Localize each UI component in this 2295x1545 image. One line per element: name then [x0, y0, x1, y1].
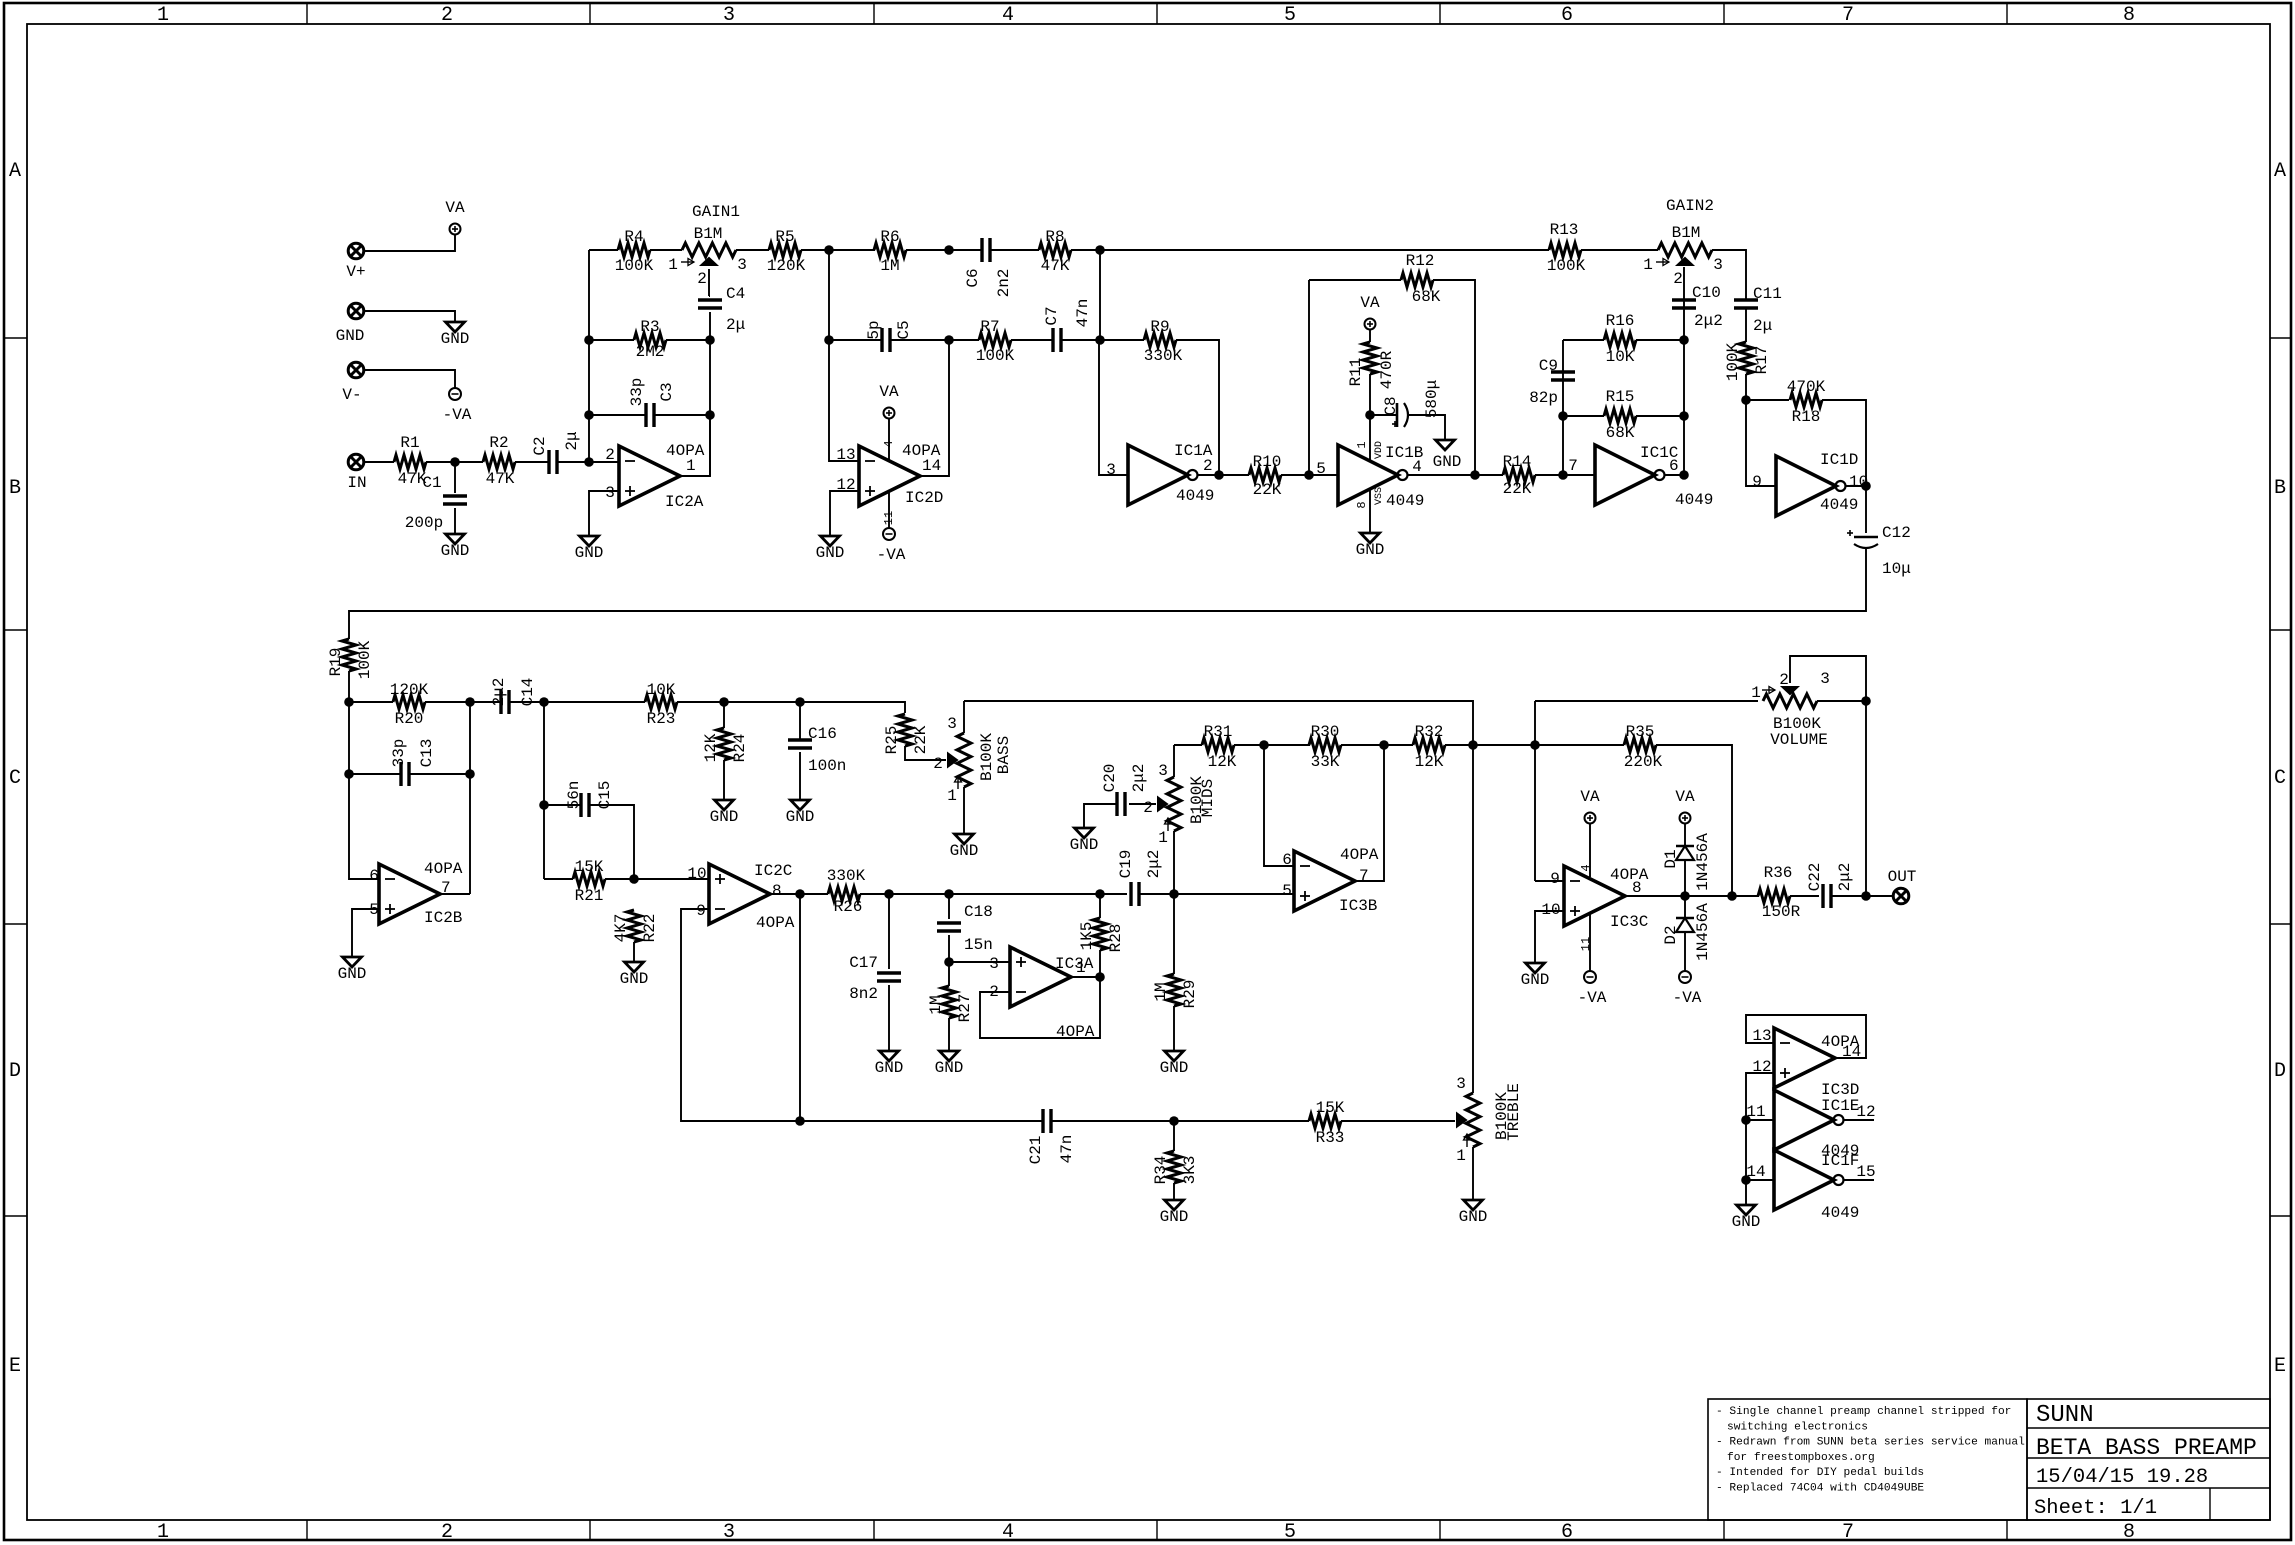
resistor R24: [717, 728, 731, 760]
node diode column: [1680, 891, 1690, 901]
resistor R16: [1604, 333, 1636, 347]
wire R12 to output column: [1433, 280, 1475, 475]
ground: [715, 800, 734, 810]
wire IN to R1: [364, 461, 394, 463]
svg-text:R8: R8: [1045, 228, 1064, 246]
svg-text:8: 8: [772, 882, 782, 900]
svg-text:3: 3: [1106, 461, 1116, 479]
resistor R34: [1167, 1151, 1181, 1183]
svg-text:GND: GND: [1356, 541, 1385, 559]
inverter IC1A: [1128, 445, 1188, 505]
diode D1 1N456A: [1676, 845, 1694, 847]
wire R25 to BASS wiper: [905, 746, 946, 760]
row dividers right band: [2270, 337, 2291, 339]
svg-text:A: A: [9, 160, 21, 183]
node R16 right: [1679, 335, 1689, 345]
svg-text:R27: R27: [956, 994, 974, 1023]
wire C20 to ground: [1084, 804, 1117, 828]
svg-text:VSS: VSS: [1374, 487, 1385, 505]
svg-text:68K: 68K: [1606, 424, 1635, 442]
wire node to C8: [1370, 414, 1397, 416]
svg-text:C5: C5: [895, 320, 913, 339]
svg-text:B1M: B1M: [694, 225, 723, 243]
svg-text:100K: 100K: [615, 257, 654, 275]
wire R35 to feedback column: [1656, 745, 1732, 894]
svg-text:GND: GND: [620, 970, 649, 988]
capacitor C1: [454, 462, 456, 493]
svg-text:-VA: -VA: [443, 406, 472, 424]
node IC2A inverting input: [584, 457, 594, 467]
wire D2 to -VA: [1684, 932, 1686, 971]
wire IC2C - input feedback loop: [681, 909, 800, 1121]
svg-text:4049: 4049: [1820, 496, 1858, 514]
wire R33 to TREBLE wiper: [1341, 1120, 1455, 1122]
wire C7 column: [1099, 250, 1101, 340]
svg-text:2: 2: [933, 755, 943, 773]
wire IC2D + input to ground: [830, 491, 859, 536]
svg-text:SUNN: SUNN: [2036, 1402, 2094, 1429]
wire V- to -VA: [364, 370, 455, 388]
capacitor C14: [499, 690, 502, 714]
svg-text:R7: R7: [980, 318, 999, 336]
node R30 right / R32 left: [1379, 740, 1389, 750]
node IC1A out / R9: [1214, 470, 1224, 480]
svg-text:2: 2: [1779, 671, 1789, 689]
terminal OUT: [1893, 888, 1909, 904]
svg-text:R3: R3: [640, 318, 659, 336]
svg-text:C: C: [9, 767, 21, 790]
node R34 column: [1169, 1116, 1179, 1126]
svg-text:C6: C6: [964, 268, 982, 287]
wire IC3A feedback loop: [980, 977, 1100, 1038]
wire C13 row: [349, 773, 401, 775]
node R8/C7 column: [1095, 245, 1105, 255]
svg-text:B1M: B1M: [1672, 224, 1701, 242]
ground: [1165, 1200, 1184, 1210]
wire IC3A + input: [949, 961, 1010, 963]
wire C11 to R17: [1745, 308, 1747, 342]
resistor R4: [618, 243, 650, 257]
resistor R31: [1202, 738, 1234, 752]
node R19/R20 row: [344, 697, 354, 707]
power flag VA IC3C: [1585, 813, 1596, 824]
capacitor C21: [1041, 1109, 1044, 1133]
node R35 feedback: [1727, 891, 1737, 901]
wire V+ to VA: [364, 234, 455, 251]
svg-text:12: 12: [1856, 1103, 1875, 1121]
svg-text:10: 10: [687, 865, 706, 883]
svg-text:IC3A: IC3A: [1055, 955, 1094, 973]
svg-text:7: 7: [1842, 4, 1854, 27]
svg-text:GND: GND: [1521, 971, 1550, 989]
wire MIDS terminal 1 to node: [1173, 831, 1175, 894]
node R3 left: [584, 335, 594, 345]
svg-text:C19: C19: [1117, 850, 1135, 879]
svg-text:C8: C8: [1382, 396, 1400, 415]
svg-text:-VA: -VA: [1673, 989, 1702, 1007]
svg-text:7: 7: [1842, 1521, 1854, 1544]
svg-text:for freestompboxes.org: for freestompboxes.org: [1727, 1452, 1875, 1464]
power flag VA IC1B: [1365, 319, 1376, 330]
node R5/R6/C5 column: [824, 245, 834, 255]
ground: [791, 800, 810, 810]
wire R10 to IC1B input: [1281, 474, 1338, 476]
svg-text:B100K: B100K: [978, 733, 996, 781]
svg-text:R25: R25: [883, 726, 901, 755]
wire R7 to C7: [1011, 339, 1053, 341]
resistor R13: [1549, 243, 1581, 257]
svg-text:1M: 1M: [927, 995, 945, 1014]
svg-text:1: 1: [668, 256, 678, 274]
capacitor C18: [948, 894, 950, 919]
potentiometer MIDS wiper: [1158, 798, 1167, 811]
svg-text:GND: GND: [786, 808, 815, 826]
power flag -VA IC3C: [1584, 971, 1596, 983]
svg-text:4049: 4049: [1821, 1204, 1859, 1222]
wire R12 row left: [1309, 279, 1401, 281]
wire IC3B - input column: [1264, 745, 1294, 866]
svg-text:4049: 4049: [1176, 487, 1214, 505]
node feedback bottom: [795, 1116, 805, 1126]
wire R18 to IC1D output column: [1822, 400, 1866, 486]
power flag VA: [450, 224, 461, 235]
node R24 column: [719, 697, 729, 707]
svg-text:R24: R24: [731, 734, 749, 763]
svg-text:1: 1: [947, 787, 957, 805]
node C5/R7/IC2D out column: [944, 335, 954, 345]
svg-text:R17: R17: [1753, 346, 1771, 375]
svg-text:5: 5: [1282, 882, 1292, 900]
resistor R20: [393, 695, 425, 709]
svg-text:3: 3: [723, 1521, 735, 1544]
svg-text:2μ: 2μ: [726, 316, 745, 334]
terminal IN: [348, 454, 364, 470]
svg-text:2μ2: 2μ2: [1836, 863, 1854, 892]
wire GAIN2 column: [1683, 267, 1685, 475]
svg-text:C7: C7: [1043, 306, 1061, 325]
resistor R19: [342, 639, 356, 671]
wire GAIN1 to R5: [736, 249, 769, 251]
wire C12 to interstage bus: [349, 548, 1866, 639]
potentiometer TREBLE wiper: [1457, 1114, 1466, 1127]
node C13 right: [465, 769, 475, 779]
svg-text:8n2: 8n2: [849, 985, 878, 1003]
svg-text:7: 7: [1568, 457, 1578, 475]
svg-text:R19: R19: [327, 648, 345, 677]
svg-text:150R: 150R: [1762, 903, 1801, 921]
ground: [955, 834, 974, 844]
wire R12 column left: [1308, 280, 1310, 475]
svg-text:VA: VA: [1360, 294, 1380, 312]
svg-text:220K: 220K: [1624, 753, 1663, 771]
svg-text:1: 1: [1643, 256, 1653, 274]
svg-text:R34: R34: [1152, 1156, 1170, 1185]
op-amp IC3A: [1010, 947, 1071, 1007]
node R32 right / treble column: [1468, 740, 1478, 750]
svg-text:C10: C10: [1692, 284, 1721, 302]
svg-text:IC1F: IC1F: [1821, 1152, 1859, 1170]
svg-text:12K: 12K: [1208, 753, 1237, 771]
svg-text:4OPA: 4OPA: [1610, 866, 1649, 884]
svg-text:3K3: 3K3: [1181, 1156, 1199, 1185]
wire C18 to IC3A + node: [948, 935, 950, 986]
wire IC2B output column: [469, 702, 471, 894]
wire R29 wires: [1173, 894, 1175, 974]
svg-text:IC2C: IC2C: [754, 862, 792, 880]
wire R4 row left segment: [589, 249, 618, 251]
inverter IC1F: [1774, 1150, 1834, 1210]
wire R36 to C22: [1790, 895, 1819, 897]
wire volume row: [1535, 700, 1758, 702]
svg-text:C9: C9: [1539, 357, 1558, 375]
svg-text:4: 4: [1579, 864, 1593, 871]
svg-text:B: B: [2274, 477, 2286, 500]
svg-text:GND: GND: [1459, 1208, 1488, 1226]
wire R21 row: [544, 878, 573, 880]
resistor R14: [1503, 468, 1535, 482]
capacitor C4: [698, 298, 722, 301]
svg-text:1: 1: [1355, 441, 1369, 448]
potentiometer VOLUME wiper: [1783, 687, 1798, 694]
node IC1C out: [1679, 470, 1689, 480]
svg-text:10μ: 10μ: [1882, 560, 1911, 578]
svg-text:12K: 12K: [702, 733, 720, 762]
wire C14 to R23: [509, 701, 645, 703]
wire R11 to node: [1369, 374, 1371, 461]
capacitor C16: [799, 702, 801, 740]
svg-text:-VA: -VA: [1578, 989, 1607, 1007]
ground: [446, 322, 465, 332]
svg-text:47n: 47n: [1058, 1135, 1076, 1164]
svg-text:10: 10: [1541, 901, 1560, 919]
wire MIDS wiper to C20: [1129, 803, 1156, 805]
svg-text:100K: 100K: [1724, 342, 1742, 381]
node R28 top: [1095, 889, 1105, 899]
svg-text:GND: GND: [575, 544, 604, 562]
title block dividers: [2027, 1427, 2270, 1429]
wire R2 to C2: [515, 461, 549, 463]
svg-text:R13: R13: [1550, 221, 1579, 239]
wire VA to R11: [1369, 329, 1371, 342]
wire R26 to C19: [860, 893, 1127, 895]
svg-text:5: 5: [369, 901, 379, 919]
svg-text:13: 13: [836, 446, 855, 464]
power flag -VA IC2D: [883, 528, 895, 540]
svg-text:C21: C21: [1027, 1136, 1045, 1165]
resistor R8: [1039, 243, 1071, 257]
potentiometer GAIN2 B1M: [1658, 243, 1712, 257]
potentiometer MIDS body: [1167, 777, 1181, 831]
op-amp IC2B: [379, 864, 440, 924]
svg-text:5p: 5p: [865, 320, 883, 339]
wire R19 to node: [348, 671, 350, 877]
svg-text:D: D: [9, 1060, 21, 1083]
wire C16 to ground: [799, 752, 801, 800]
svg-text:2μ: 2μ: [1753, 317, 1772, 335]
svg-text:15n: 15n: [964, 936, 993, 954]
node C14/C15 column: [539, 697, 549, 707]
capacitor C17: [888, 894, 890, 969]
op-amp IC3B: [1294, 851, 1355, 911]
svg-text:4OPA: 4OPA: [424, 860, 463, 878]
svg-text:3: 3: [1820, 670, 1830, 688]
capacitor C13: [399, 762, 402, 786]
resistor R12: [1401, 273, 1433, 287]
notes box: [1708, 1399, 2027, 1520]
wire R16 row: [1563, 339, 1604, 341]
wire IC1A output to R10: [1198, 474, 1249, 476]
wire VA to D1: [1684, 823, 1686, 846]
svg-text:Sheet: 1/1: Sheet: 1/1: [2034, 1497, 2157, 1520]
node C7/R9: [1095, 335, 1105, 345]
node C18 column: [944, 889, 954, 899]
wire VA to IC2D pin 4: [888, 418, 890, 461]
svg-text:D: D: [2274, 1060, 2286, 1083]
wire C17 to ground: [888, 985, 890, 1051]
svg-text:A: A: [2274, 160, 2286, 183]
svg-text:C2: C2: [531, 436, 549, 455]
svg-text:4K7: 4K7: [612, 914, 630, 943]
svg-text:GND: GND: [816, 544, 845, 562]
svg-text:GND: GND: [950, 842, 979, 860]
svg-text:2: 2: [1203, 457, 1213, 475]
op-amp IC3D: [1774, 1028, 1835, 1088]
node C5 left: [824, 335, 834, 345]
svg-text:22K: 22K: [1503, 480, 1532, 498]
svg-text:330K: 330K: [827, 867, 866, 885]
svg-text:4: 4: [1002, 1521, 1014, 1544]
potentiometer BASS body: [957, 733, 971, 787]
capacitor C6: [980, 238, 983, 262]
svg-text:VDD: VDD: [1374, 441, 1385, 459]
resistor R23: [645, 695, 677, 709]
svg-text:4049: 4049: [1386, 492, 1424, 510]
wire C2 to IC2A input node: [557, 461, 619, 463]
wire IC1B pin 8 to ground: [1369, 489, 1371, 533]
wire R24 to ground: [723, 760, 725, 800]
wire R31 row: [1174, 744, 1202, 746]
svg-text:1N456A: 1N456A: [1694, 903, 1712, 961]
svg-text:4: 4: [1412, 458, 1422, 476]
potentiometer BASS B100K wiper: [948, 754, 957, 767]
svg-text:- Single channel preamp channe: - Single channel preamp channel stripped…: [1716, 1406, 2011, 1418]
wire IC1D out to C12: [1865, 486, 1867, 533]
column dividers bottom band: [306, 1520, 308, 1540]
svg-text:3: 3: [737, 256, 747, 274]
wire IC1A input column: [1099, 340, 1128, 475]
wire IC3B output to R30/R32 row: [1355, 745, 1384, 881]
svg-text:1N456A: 1N456A: [1694, 833, 1712, 891]
node R11/C8: [1365, 410, 1375, 420]
svg-text:C1: C1: [422, 474, 441, 492]
wire R18 row left: [1746, 399, 1789, 401]
capacitor C8 electrolytic: [1396, 403, 1399, 427]
wire BASS terminal 1 to ground: [963, 787, 965, 834]
ground: [1165, 1051, 1184, 1061]
node IC3A out / R28: [1095, 972, 1105, 982]
svg-text:IC1D: IC1D: [1820, 451, 1858, 469]
svg-text:47K: 47K: [1041, 257, 1070, 275]
svg-text:8: 8: [2123, 1521, 2135, 1544]
wire C5 to node: [890, 339, 979, 341]
svg-text:2: 2: [441, 4, 453, 27]
wire IC1D input: [1746, 400, 1776, 486]
power flag -VA: [449, 388, 461, 400]
svg-text:R21: R21: [575, 887, 604, 905]
svg-text:100K: 100K: [1547, 257, 1586, 275]
node C3 left: [584, 410, 594, 420]
svg-text:2μ: 2μ: [563, 431, 581, 450]
svg-text:R2: R2: [489, 434, 508, 452]
svg-text:IC1E: IC1E: [1821, 1097, 1859, 1115]
resistor R9: [1144, 333, 1176, 347]
ground: [1436, 440, 1455, 450]
svg-text:2n2: 2n2: [995, 269, 1013, 298]
svg-text:470K: 470K: [1787, 378, 1826, 396]
svg-text:82p: 82p: [1529, 389, 1558, 407]
wire C9 column: [1562, 340, 1564, 475]
wire IC3C output: [1625, 895, 1759, 897]
svg-text:R16: R16: [1606, 312, 1635, 330]
svg-text:IN: IN: [347, 474, 366, 492]
svg-text:7: 7: [1359, 867, 1369, 885]
ground: [940, 1051, 959, 1061]
ground: [1737, 1205, 1756, 1215]
svg-text:OUT: OUT: [1888, 868, 1917, 886]
resistor R27: [942, 986, 956, 1018]
svg-text:- Replaced 74C04 with CD4049UB: - Replaced 74C04 with CD4049UBE: [1716, 1483, 1924, 1495]
wire R24 column: [723, 702, 725, 728]
svg-text:2μ2: 2μ2: [1145, 850, 1163, 879]
node IC1D out: [1861, 481, 1871, 491]
node R6/C6/IC2D column: [944, 245, 954, 255]
node R3 right: [705, 335, 715, 345]
svg-text:GND: GND: [441, 542, 470, 560]
svg-text:IC3C: IC3C: [1610, 913, 1648, 931]
svg-text:4: 4: [882, 440, 896, 447]
wire volume-ic3c column: [1534, 701, 1536, 881]
resistor R1: [394, 455, 426, 469]
svg-text:33K: 33K: [1311, 753, 1340, 771]
svg-text:47n: 47n: [1074, 299, 1092, 328]
wire IC2A + input to ground: [589, 491, 619, 536]
wire node up to R4 row: [588, 250, 590, 462]
potentiometer TREBLE body: [1466, 1093, 1480, 1147]
node C16 column: [795, 697, 805, 707]
svg-text:R10: R10: [1253, 453, 1282, 471]
wire IC1E input: [1746, 1119, 1774, 1121]
svg-text:47K: 47K: [486, 470, 515, 488]
svg-text:4049: 4049: [1675, 491, 1713, 509]
wire R1 to node: [426, 461, 483, 463]
svg-text:1: 1: [1456, 1147, 1466, 1165]
wire IC3C + input to ground: [1535, 911, 1564, 963]
node MIDS bottom column: [1169, 889, 1179, 899]
wire C19 to IC3B + input: [1139, 893, 1294, 895]
svg-text:IC2A: IC2A: [665, 493, 704, 511]
svg-text:R35: R35: [1626, 723, 1655, 741]
ground: [1464, 1200, 1483, 1210]
svg-text:C16: C16: [808, 725, 837, 743]
svg-text:22K: 22K: [1253, 481, 1282, 499]
svg-text:1: 1: [1158, 829, 1168, 847]
wire IC2B + input to ground: [352, 909, 379, 957]
resistor R17: [1739, 342, 1753, 374]
svg-text:2: 2: [441, 1521, 453, 1544]
resistor R26: [828, 887, 860, 901]
wire R17 to node: [1745, 374, 1747, 400]
wire GAIN2 to C11 column: [1712, 250, 1746, 300]
